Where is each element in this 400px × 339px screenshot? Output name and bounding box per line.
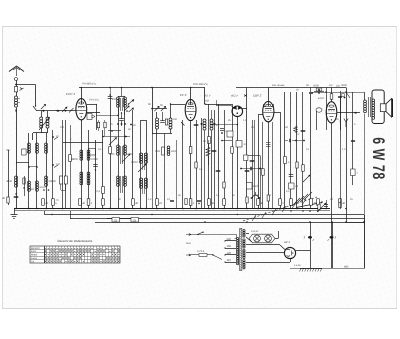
divider boxes <box>60 176 68 191</box>
resistor R10 <box>203 137 210 144</box>
resistor bus9 <box>223 199 226 206</box>
svg-text:5000: 5000 <box>341 84 347 87</box>
svg-text:EF 9: EF 9 <box>180 93 187 97</box>
coil L11 <box>87 150 98 185</box>
resistor bus5 <box>132 199 139 206</box>
label 6W78 <box>369 137 389 180</box>
junction 9 <box>124 208 126 210</box>
svg-text:1000: 1000 <box>155 150 161 153</box>
svg-text:100: 100 <box>284 126 289 129</box>
label IF1f <box>82 83 96 86</box>
svg-text:462: 462 <box>205 100 210 103</box>
resistor bus12 <box>290 199 293 206</box>
wire <box>87 99 100 113</box>
junction 3 <box>45 208 47 210</box>
IF1 res <box>165 119 167 125</box>
IF1 trimmers <box>151 106 167 111</box>
junction 1 <box>28 208 30 210</box>
junction 14 <box>195 208 197 210</box>
svg-text:485: 485 <box>344 266 349 269</box>
pot blob <box>251 192 261 199</box>
tuning eye U3 AM2 <box>216 100 243 117</box>
resistor R4 <box>96 187 104 194</box>
wire top rail2 <box>193 83 346 87</box>
trimmer mid <box>124 106 129 112</box>
bus PSU <box>290 268 365 270</box>
resistor R15 <box>97 120 99 131</box>
coil L10 <box>71 150 83 185</box>
wire <box>164 134 166 210</box>
wire <box>88 130 90 209</box>
wire <box>274 112 281 209</box>
wire <box>232 104 234 209</box>
ground left <box>11 209 18 219</box>
wire <box>132 110 134 209</box>
potentiometer <box>292 192 323 208</box>
resistor bus2 <box>79 199 86 206</box>
coil L18 <box>167 146 177 156</box>
resistor bus1 <box>52 199 58 206</box>
resistor bus11 <box>279 199 285 206</box>
resistor R7 <box>195 162 197 168</box>
resistor R13 <box>223 182 225 188</box>
trimmer C1 <box>41 104 46 109</box>
wire <box>204 88 206 105</box>
IF1 coil B <box>169 112 172 129</box>
wire <box>351 92 355 185</box>
wire <box>340 96 342 209</box>
resistor R6 <box>189 147 192 154</box>
svg-text:Übersicht der Wellenbereiche: Übersicht der Wellenbereiche <box>57 239 93 243</box>
wire lamp ret <box>275 231 279 239</box>
table title <box>57 239 93 243</box>
label EBF2 <box>253 94 262 98</box>
coil L1 <box>15 96 20 107</box>
wire <box>15 81 17 87</box>
IF core D <box>143 178 145 194</box>
trim box right <box>342 94 346 99</box>
pot arrow a <box>122 154 130 162</box>
wire <box>65 120 67 209</box>
wire <box>28 133 30 209</box>
svg-text:TA: TA <box>31 260 34 263</box>
cathode circle <box>316 108 322 130</box>
fuse F1 <box>197 250 207 256</box>
wire <box>81 88 83 105</box>
svg-text:5000: 5000 <box>253 185 259 188</box>
OT secondary <box>372 99 375 119</box>
coil L15 <box>145 153 148 188</box>
junction 17 <box>246 208 248 210</box>
wire <box>87 104 97 130</box>
comp marks x53 <box>52 135 60 202</box>
wire to switch <box>16 85 36 107</box>
svg-text:ПЧ 2 кГц: ПЧ 2 кГц <box>89 99 99 102</box>
wire <box>221 140 232 142</box>
resistor bus10 <box>257 199 264 206</box>
wire <box>268 122 270 209</box>
EBF2 cathode ticks <box>266 143 271 147</box>
label EF9 <box>180 93 187 97</box>
resistor bus14 <box>317 199 323 206</box>
wire <box>262 122 264 209</box>
resistor R17 <box>294 126 298 133</box>
wire <box>331 88 333 103</box>
capacitor C4 <box>108 94 117 101</box>
wire <box>190 121 192 209</box>
wire <box>235 238 238 240</box>
det cap <box>220 129 228 134</box>
T1 sec top <box>243 230 245 238</box>
switch link <box>243 197 317 221</box>
wire <box>363 221 365 268</box>
svg-text:20000: 20000 <box>48 180 57 183</box>
jack Y <box>339 119 348 128</box>
svg-text:дин.: дин. <box>336 85 341 88</box>
lamp hexagon <box>249 234 275 243</box>
coil L4 <box>22 143 30 191</box>
junction 22 <box>345 208 347 210</box>
mains switch <box>197 232 203 236</box>
junction 7 <box>95 208 97 210</box>
tube U4 EBF2 <box>263 101 274 121</box>
capacitor C8 <box>313 84 324 93</box>
junction 2 <box>36 208 38 210</box>
wire <box>108 130 121 132</box>
wire AZ1 plates <box>246 245 285 253</box>
wire <box>15 108 17 209</box>
terminal E <box>2 150 9 205</box>
svg-text:25t: 25t <box>133 219 137 222</box>
OT primary <box>364 100 367 113</box>
coil L7 <box>45 176 57 186</box>
resistor R2 <box>23 176 25 196</box>
resistor R5 <box>109 147 112 154</box>
lamp P2 <box>265 235 272 242</box>
junction 11 <box>156 208 158 210</box>
wire <box>364 114 366 268</box>
resistor bus x247b <box>246 197 248 203</box>
wire <box>332 222 334 268</box>
diode box D1 <box>22 149 32 155</box>
svg-text:EBF 2: EBF 2 <box>253 94 262 98</box>
box B1 <box>244 155 248 161</box>
resistor R11 <box>231 147 234 154</box>
svg-text:25t: 25t <box>114 219 118 222</box>
antenna <box>9 66 24 76</box>
box AU <box>87 114 95 120</box>
cap mid <box>251 167 252 171</box>
svg-text:ECH 4: ECH 4 <box>66 92 75 96</box>
coil L17 <box>210 110 213 209</box>
coil L13a <box>124 96 127 115</box>
wire <box>258 115 263 210</box>
rail drops <box>45 211 365 223</box>
wire AZ1 out <box>296 222 311 268</box>
capacitor bus x172 <box>170 201 174 202</box>
labels tr <box>329 84 347 87</box>
capacitor C14 <box>245 171 250 172</box>
resistor bus3 <box>87 199 93 206</box>
resistor R16 <box>104 120 106 137</box>
junction 16 <box>237 208 239 210</box>
wire <box>272 122 274 209</box>
junction row <box>285 139 305 143</box>
svg-text:10000: 10000 <box>91 158 99 161</box>
wire <box>62 120 64 209</box>
wire <box>16 92 18 96</box>
svg-text:ЗЧ: ЗЧ <box>244 143 247 146</box>
wire <box>95 140 97 209</box>
box B5 <box>227 131 233 137</box>
det dot <box>214 123 220 127</box>
IF0 core <box>121 98 123 111</box>
capacitor C5 <box>119 112 124 126</box>
T1 sec fil <box>243 260 245 269</box>
arrow diag <box>109 138 117 146</box>
rail dots <box>51 208 347 223</box>
capacitor bus x199 <box>197 201 201 205</box>
wire <box>302 92 304 209</box>
box AVC <box>89 149 96 156</box>
resistor R3 <box>69 155 75 162</box>
band table <box>30 246 120 263</box>
svg-text:Рек. динам.: Рек. динам. <box>272 84 285 87</box>
junction 19 <box>284 208 286 210</box>
ground bus <box>14 209 330 211</box>
wire <box>107 218 131 220</box>
comp EF9a <box>181 120 185 209</box>
wire top rail <box>79 87 205 89</box>
resistor bus8 <box>208 199 215 206</box>
speaker cone <box>386 99 393 117</box>
svg-text:4-6,3В: 4-6,3В <box>294 264 301 267</box>
wire <box>102 136 130 138</box>
resistor R9 <box>296 162 298 168</box>
wire <box>118 98 120 209</box>
wire <box>118 87 125 97</box>
chassis ground <box>300 268 323 272</box>
labels band1 <box>60 84 356 201</box>
wire <box>146 120 148 209</box>
svg-text:25: 25 <box>158 202 162 205</box>
junction 8 <box>109 208 111 210</box>
wire <box>290 92 292 209</box>
IF1 cap <box>160 112 165 123</box>
wire <box>156 134 158 210</box>
svg-text:1000: 1000 <box>109 153 115 156</box>
wire <box>208 104 210 209</box>
switch right <box>345 91 350 98</box>
svg-text:100: 100 <box>112 98 117 101</box>
junction 15 <box>213 208 215 210</box>
ant fuse <box>15 78 18 81</box>
label 485 <box>294 264 349 269</box>
wire <box>254 120 256 209</box>
T1 sec HT <box>243 239 245 259</box>
label din <box>336 85 341 88</box>
resistor R19 <box>206 140 210 165</box>
svg-text:150: 150 <box>227 245 232 248</box>
wire <box>190 88 192 105</box>
wire <box>246 234 252 243</box>
switch S1 <box>33 105 37 110</box>
svg-text:10000: 10000 <box>131 161 139 164</box>
OT core <box>369 97 371 117</box>
rail 2 <box>45 214 364 216</box>
junction 4 <box>52 208 54 210</box>
wire <box>170 103 186 112</box>
resistor bus4 <box>102 199 105 206</box>
wire <box>207 254 213 256</box>
resistor R8 <box>284 157 290 165</box>
wire <box>242 88 247 210</box>
resistor bus13 <box>310 199 317 206</box>
rail 3 <box>70 218 364 220</box>
label ECH4 <box>66 92 75 96</box>
mains term1 <box>186 234 237 239</box>
resistor bus0 <box>42 199 49 206</box>
svg-text:3000: 3000 <box>171 150 177 153</box>
wire AZ1 fil <box>246 259 291 263</box>
coil L13 <box>124 145 134 186</box>
wire <box>218 104 220 209</box>
junction 20 <box>296 208 298 210</box>
box B3 <box>289 183 299 189</box>
coil L8 <box>6 176 17 187</box>
coil top dots <box>117 123 136 127</box>
speaker frame <box>372 90 384 124</box>
wire <box>81 120 83 135</box>
capacitor C3 <box>93 165 98 171</box>
T1 core <box>240 229 242 271</box>
svg-text:220: 220 <box>227 238 232 241</box>
label Netz <box>186 242 192 245</box>
junction 6 <box>81 208 83 210</box>
coil L12 <box>109 145 119 186</box>
resistor bus x268 <box>267 195 269 201</box>
wire <box>311 93 365 101</box>
resistor R14 <box>302 165 305 172</box>
wire <box>70 125 72 209</box>
capacitor C12 <box>250 161 255 162</box>
capacitor C7 <box>301 131 306 132</box>
label AZ1 <box>283 240 290 244</box>
wire <box>16 162 29 164</box>
wire <box>252 120 254 209</box>
coil L6 <box>43 143 49 191</box>
wire <box>268 88 270 107</box>
svg-text:5000: 5000 <box>29 188 35 191</box>
resistor R18 <box>155 147 165 155</box>
wire <box>43 110 45 112</box>
wire <box>152 129 172 134</box>
resistor bus x186 <box>185 199 187 205</box>
IF1 coil A <box>156 112 159 129</box>
wire <box>141 120 146 122</box>
IF core A <box>121 146 123 164</box>
selector <box>212 254 222 259</box>
coil L12a <box>117 96 120 115</box>
resistor bus15 <box>339 199 346 206</box>
wire <box>124 98 126 209</box>
tap 150 <box>224 245 236 249</box>
svg-text:0,1: 0,1 <box>96 190 100 193</box>
wire <box>102 130 104 209</box>
wire <box>237 117 239 209</box>
box B2 <box>247 183 259 190</box>
IF core C <box>143 153 145 170</box>
cap C10 <box>304 236 315 241</box>
box B6 <box>236 141 247 148</box>
label EFM <box>318 97 324 100</box>
svg-text:0,75 A: 0,75 A <box>197 250 205 253</box>
coil L2 <box>40 111 43 128</box>
svg-text:AZ 1: AZ 1 <box>283 240 290 244</box>
svg-text:4Б2 У: 4Б2 У <box>231 95 238 98</box>
coil L3 <box>46 111 49 128</box>
capacitor ant <box>14 87 23 92</box>
T1 primary <box>237 238 239 265</box>
wire <box>246 155 260 209</box>
comp EF9c <box>201 118 203 209</box>
wire <box>152 88 154 135</box>
wire <box>346 88 348 223</box>
wire <box>224 110 226 209</box>
arrow grid <box>56 107 74 113</box>
comp pair right <box>309 200 328 212</box>
wire <box>325 88 326 131</box>
svg-text:2×6,3V: 2×6,3V <box>251 230 259 233</box>
wire <box>296 92 298 209</box>
svg-text:5000: 5000 <box>313 84 319 87</box>
svg-text:ПЧ 468 кГц: ПЧ 468 кГц <box>82 83 96 86</box>
capacitor C9 <box>216 171 221 172</box>
label AM2 <box>204 95 247 98</box>
wire <box>140 120 142 209</box>
junction 10 <box>140 208 142 210</box>
wire <box>346 222 364 224</box>
tap 220 <box>224 238 236 242</box>
cap C11 <box>328 236 337 241</box>
tube U5 out <box>326 102 337 123</box>
wire <box>204 103 232 104</box>
wire <box>214 110 216 209</box>
resistor bus7 <box>189 199 195 206</box>
junction 12 <box>164 208 166 210</box>
svg-text:EFM: EFM <box>318 97 324 100</box>
svg-text:Netz: Netz <box>186 242 192 245</box>
tone cap <box>338 91 342 130</box>
speaker magnet <box>380 104 386 112</box>
capacitor C2 <box>14 193 19 197</box>
tap 125 <box>224 252 236 256</box>
wire <box>81 135 83 209</box>
wire <box>284 92 286 209</box>
wire <box>52 130 54 209</box>
junction 0 <box>15 208 17 210</box>
wire <box>306 84 313 209</box>
wire <box>331 123 333 268</box>
resistor bus6 <box>156 199 163 206</box>
junction 13 <box>182 208 184 210</box>
tap 110 <box>224 259 236 263</box>
variable cap CV1 <box>33 118 50 141</box>
pot arrow c <box>303 175 310 182</box>
link box2 <box>131 218 139 223</box>
junction 18 <box>268 208 270 210</box>
wire <box>109 87 111 209</box>
